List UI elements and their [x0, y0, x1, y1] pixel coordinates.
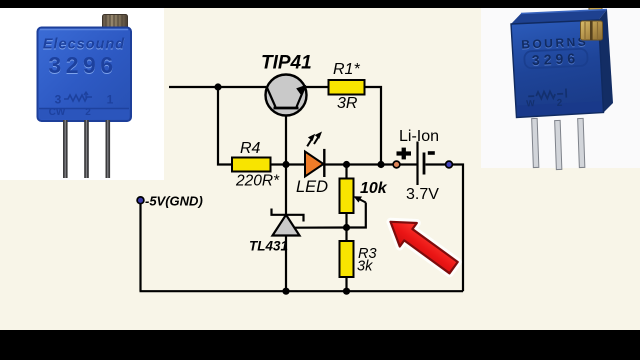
top letterbox bar: [0, 0, 640, 8]
resistor R4: [232, 158, 271, 172]
svg-text:3296: 3296: [48, 52, 117, 78]
svg-text:10k: 10k: [360, 180, 388, 197]
wire: LED to battery: [326, 163, 394, 165]
svg-text:1: 1: [107, 93, 114, 107]
node: 10k/R3/ref junction: [343, 224, 350, 231]
node: TL431 anode on rail: [282, 288, 289, 295]
wire: transistor base down to node A: [285, 115, 287, 165]
node: battery + terminal (orange): [393, 161, 400, 168]
node: 10k top junction: [343, 161, 350, 168]
battery B1 Li-Ion: [418, 142, 425, 186]
wire: blue node to right rail down: [453, 165, 464, 292]
wire: top rail from photo edge to transistor collector: [169, 86, 266, 88]
node: junction on top rail: [214, 83, 221, 90]
svg-text:Elecsound: Elecsound: [43, 37, 125, 53]
svg-text:CW: CW: [49, 107, 66, 118]
transistor Q1 TIP41: [266, 75, 307, 116]
wire: down from top rail to R4: [218, 87, 232, 165]
wire: emitter to R1: [306, 86, 328, 88]
wire: R4 to node A: [271, 163, 306, 165]
svg-text:220R*: 220R*: [235, 173, 280, 190]
svg-text:2: 2: [85, 107, 91, 118]
gold screw head: [581, 21, 603, 40]
svg-text:3R: 3R: [337, 95, 358, 112]
svg-text:2: 2: [557, 98, 564, 109]
bottom letterbox bar: [0, 330, 640, 360]
wire: bottom rail: [140, 290, 464, 292]
svg-text:R1*: R1*: [333, 61, 360, 78]
node: R1 branch junction: [377, 161, 384, 168]
top face: [511, 10, 607, 25]
wire: 10k top lead: [345, 165, 347, 179]
left photo white background: [0, 8, 164, 180]
node: battery - terminal (blue): [446, 161, 453, 168]
resistor R3: [340, 241, 354, 277]
svg-text:3296: 3296: [532, 50, 580, 68]
potentiometer 10k: [340, 179, 354, 214]
LED D1: [305, 149, 324, 177]
wire: GND down to bottom rail: [139, 204, 141, 291]
LED light arrows: [307, 132, 322, 147]
svg-text:3: 3: [55, 93, 62, 107]
red pointer arrow: [382, 210, 462, 279]
svg-text:3k: 3k: [357, 259, 373, 275]
battery - sign: [428, 151, 435, 155]
right photo white background: [481, 8, 640, 168]
svg-text:TIP41: TIP41: [261, 53, 312, 74]
shunt regulator U1 TL431: [272, 209, 304, 236]
node: R3 bottom on rail: [343, 288, 350, 295]
left trimmer photo: blue body Elecsound 3296: [38, 28, 132, 122]
right trimmer photo: three silver legs: [532, 118, 585, 169]
wire: R3 bottom to rail: [345, 277, 347, 291]
svg-text:W: W: [526, 98, 535, 108]
right trimmer photo: Bourns 3296 tilted body: [511, 4, 613, 118]
wire: orange node to battery plate: [400, 163, 417, 165]
svg-text:LED: LED: [296, 178, 328, 196]
wire: TL431 cathode from node A: [285, 165, 287, 217]
battery + sign: [397, 148, 412, 160]
wire: 10k bottom lead: [345, 213, 347, 241]
node: -5V(GND) terminal (blue): [137, 197, 144, 204]
svg-text:TL431: TL431: [249, 239, 288, 254]
left trimmer photo: three legs: [63, 120, 110, 178]
potentiometer wiper arrow: [347, 196, 366, 227]
resistor R1: [329, 80, 365, 95]
node A: base/R4/LED junction: [282, 161, 289, 168]
wire: battery - to blue node: [426, 163, 447, 165]
right side face: [599, 10, 614, 113]
svg-text:Li-Ion: Li-Ion: [399, 128, 439, 145]
wire: TL431 ref to junction: [295, 226, 347, 228]
svg-text:3.7V: 3.7V: [406, 186, 439, 203]
left trimmer photo: adjustment screw: [103, 15, 128, 31]
wire: R1 to battery + corner: [365, 87, 382, 165]
svg-text:R4: R4: [240, 140, 261, 157]
gold screw rear nub: [589, 4, 602, 12]
svg-text:-5V(GND): -5V(GND): [145, 194, 203, 209]
front face: [511, 20, 604, 118]
wire: TL431 anode to rail: [285, 236, 287, 292]
